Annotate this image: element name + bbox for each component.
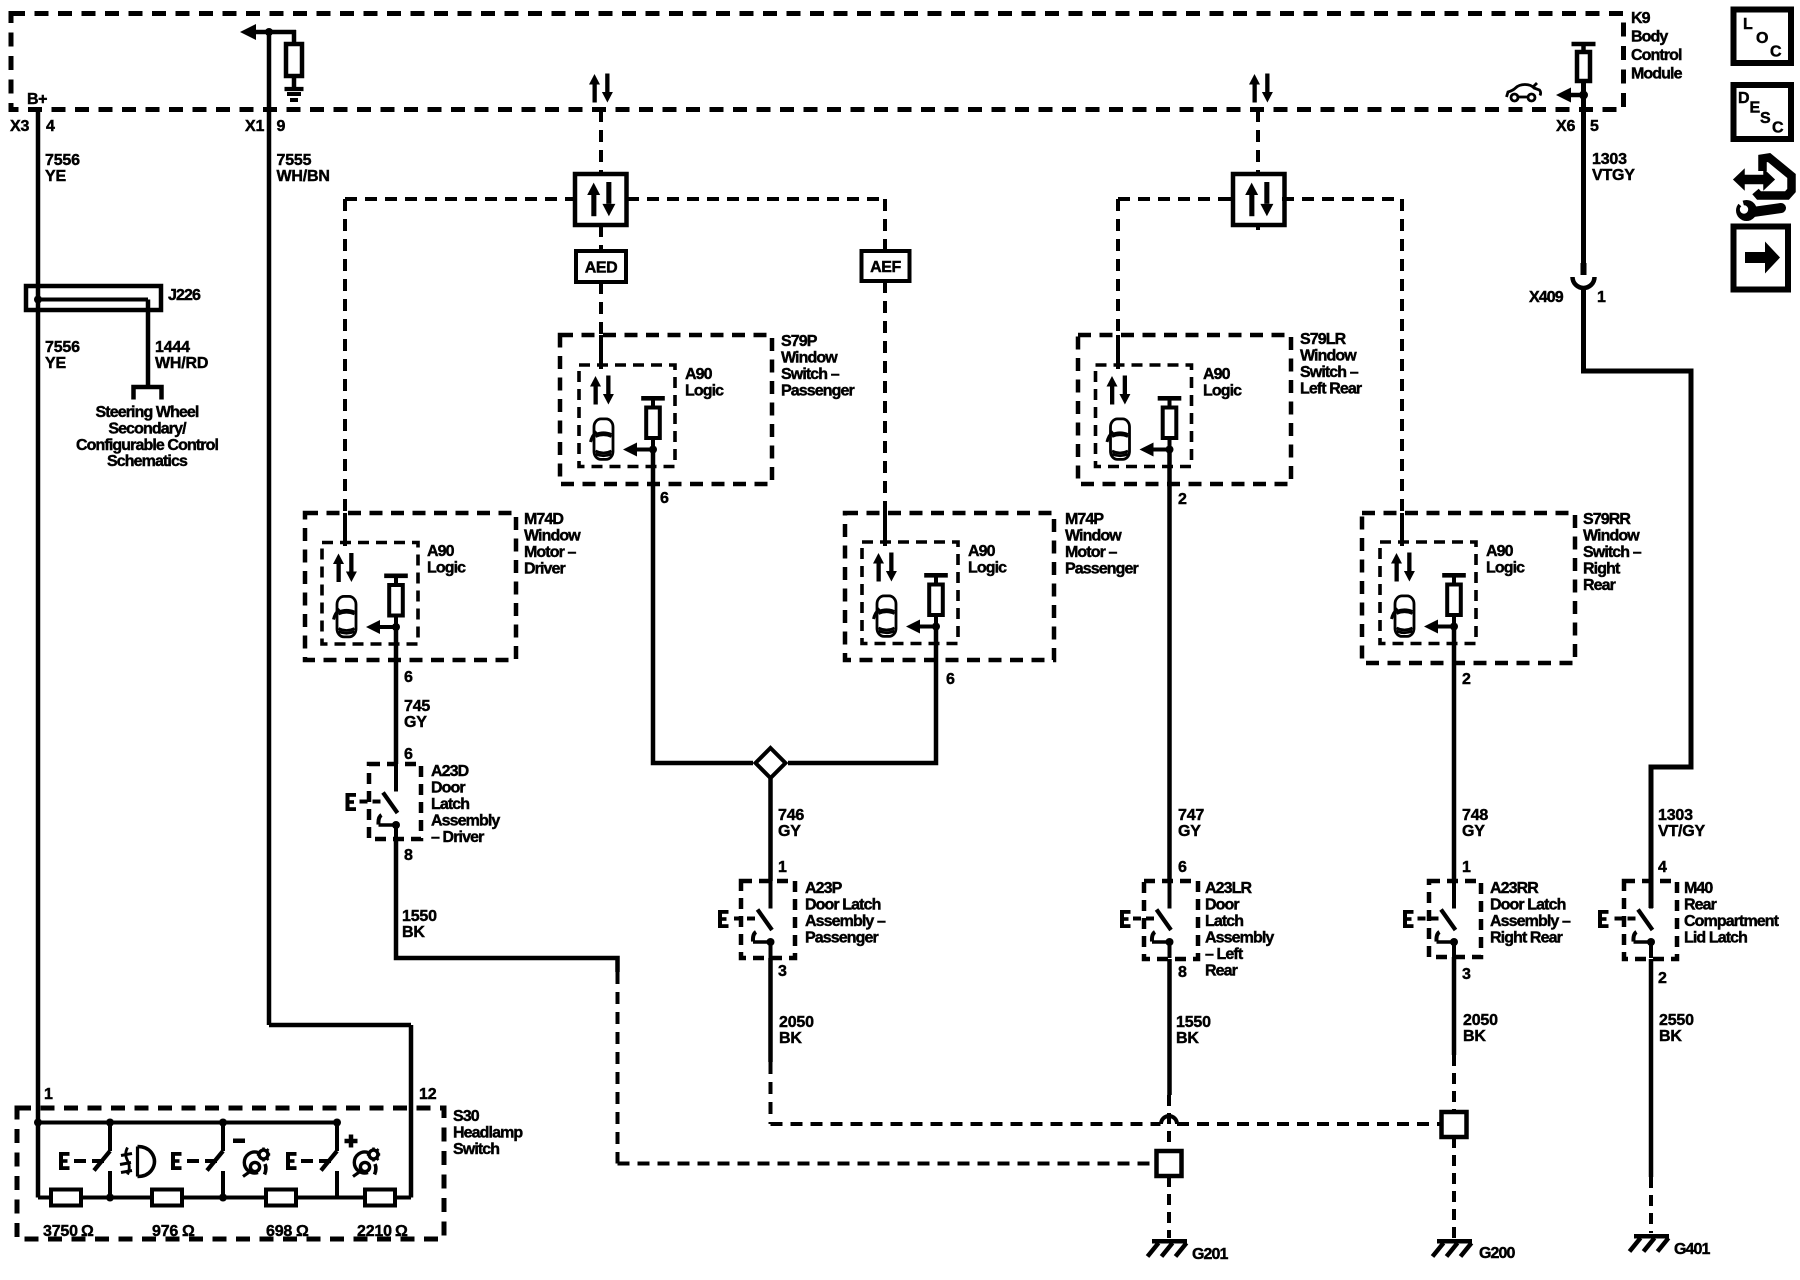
svg-text:6: 6 (946, 671, 955, 688)
svg-text:8: 8 (1178, 964, 1187, 981)
svg-text:Body: Body (1631, 29, 1668, 46)
svg-text:5: 5 (1590, 118, 1599, 135)
svg-text:– Driver: – Driver (431, 829, 484, 846)
svg-text:O: O (1756, 30, 1768, 47)
svg-text:X409: X409 (1529, 289, 1564, 306)
svg-text:AEF: AEF (870, 259, 901, 276)
svg-text:Assembly –: Assembly – (805, 913, 886, 930)
svg-text:1303: 1303 (1658, 807, 1693, 824)
svg-text:Driver: Driver (524, 561, 566, 578)
svg-text:8: 8 (404, 847, 413, 864)
svg-text:G401: G401 (1674, 1241, 1711, 1258)
svg-text:Window: Window (1583, 528, 1640, 545)
svg-text:GY: GY (1178, 823, 1201, 840)
svg-text:7556: 7556 (45, 152, 80, 169)
svg-text:Control: Control (1631, 47, 1682, 64)
svg-text:Latch: Latch (431, 796, 469, 813)
svg-text:GY: GY (1462, 823, 1485, 840)
svg-text:Logic: Logic (968, 560, 1007, 577)
svg-text:Ω: Ω (182, 1223, 195, 1240)
svg-text:VT/GY: VT/GY (1658, 823, 1706, 840)
svg-text:Module: Module (1631, 66, 1683, 83)
svg-text:A90: A90 (1486, 543, 1514, 560)
svg-text:S79P: S79P (781, 333, 818, 350)
svg-text:Configurable Control: Configurable Control (76, 437, 218, 454)
svg-text:Headlamp: Headlamp (453, 1125, 523, 1142)
svg-text:Switch –: Switch – (781, 366, 840, 383)
svg-text:Left Rear: Left Rear (1300, 381, 1362, 398)
svg-text:Switch –: Switch – (1300, 364, 1359, 381)
svg-text:C: C (1770, 44, 1782, 61)
svg-text:1550: 1550 (402, 908, 437, 925)
svg-text:Compartment: Compartment (1684, 913, 1780, 930)
svg-text:2: 2 (1178, 491, 1187, 508)
svg-text:1444: 1444 (155, 339, 190, 356)
svg-text:Rear: Rear (1684, 897, 1717, 914)
svg-text:7556: 7556 (45, 339, 80, 356)
svg-text:A90: A90 (968, 543, 996, 560)
svg-text:Door Latch: Door Latch (805, 897, 881, 914)
svg-text:Secondary/: Secondary/ (108, 421, 187, 438)
svg-text:L: L (1743, 16, 1753, 33)
svg-text:X1: X1 (245, 118, 264, 135)
svg-text:7555: 7555 (277, 152, 312, 169)
svg-text:WH/BN: WH/BN (277, 168, 330, 185)
svg-text:Ω: Ω (81, 1223, 94, 1240)
svg-text:6: 6 (660, 490, 669, 507)
svg-text:A23LR: A23LR (1205, 880, 1253, 897)
svg-text:Ω: Ω (296, 1223, 309, 1240)
svg-text:Switch: Switch (453, 1141, 499, 1158)
svg-text:S79LR: S79LR (1300, 331, 1347, 348)
svg-text:Window: Window (781, 350, 838, 367)
svg-text:12: 12 (419, 1086, 437, 1103)
svg-text:1550: 1550 (1176, 1014, 1211, 1031)
svg-text:4: 4 (1658, 859, 1667, 876)
svg-text:Logic: Logic (427, 560, 466, 577)
svg-text:BK: BK (1659, 1028, 1682, 1045)
svg-text:9: 9 (277, 118, 286, 135)
svg-text:Logic: Logic (685, 383, 724, 400)
svg-text:D: D (1738, 90, 1750, 107)
svg-text:3750: 3750 (43, 1223, 78, 1240)
svg-text:X3: X3 (10, 118, 29, 135)
svg-text:1303: 1303 (1592, 151, 1627, 168)
svg-text:Right: Right (1583, 561, 1621, 578)
svg-text:Rear: Rear (1205, 963, 1238, 980)
svg-text:S79RR: S79RR (1583, 511, 1631, 528)
svg-text:748: 748 (1462, 807, 1488, 824)
svg-text:1: 1 (44, 1086, 53, 1103)
svg-text:747: 747 (1178, 807, 1204, 824)
svg-text:1: 1 (1462, 859, 1471, 876)
svg-text:Assembly: Assembly (1205, 930, 1274, 947)
svg-text:Logic: Logic (1486, 560, 1525, 577)
svg-text:M74D: M74D (524, 511, 563, 528)
svg-text:M40: M40 (1684, 880, 1713, 897)
svg-text:S: S (1760, 110, 1771, 127)
svg-text:Passenger: Passenger (805, 930, 879, 947)
svg-text:1: 1 (1597, 289, 1606, 306)
svg-text:GY: GY (404, 714, 427, 731)
svg-text:YE: YE (45, 168, 66, 185)
svg-text:A90: A90 (685, 366, 713, 383)
svg-text:G200: G200 (1479, 1245, 1516, 1262)
svg-text:K9: K9 (1631, 10, 1651, 27)
svg-text:6: 6 (404, 746, 413, 763)
svg-text:Motor –: Motor – (1065, 544, 1117, 561)
svg-text:A90: A90 (1203, 366, 1231, 383)
svg-text:745: 745 (404, 698, 430, 715)
svg-text:J226: J226 (168, 287, 201, 304)
svg-text:Window: Window (524, 528, 581, 545)
svg-text:A23RR: A23RR (1490, 880, 1539, 897)
svg-text:Switch –: Switch – (1583, 544, 1642, 561)
svg-text:BK: BK (1176, 1030, 1199, 1047)
svg-text:X6: X6 (1556, 118, 1575, 135)
svg-text:6: 6 (1178, 859, 1187, 876)
svg-text:Passenger: Passenger (781, 383, 855, 400)
svg-text:Right Rear: Right Rear (1490, 930, 1563, 947)
svg-text:A23P: A23P (805, 880, 843, 897)
svg-text:Motor –: Motor – (524, 544, 576, 561)
svg-text:Passenger: Passenger (1065, 561, 1139, 578)
svg-text:C: C (1772, 120, 1784, 137)
svg-text:3: 3 (778, 963, 787, 980)
svg-text:976: 976 (152, 1223, 178, 1240)
svg-text:E: E (1750, 100, 1761, 117)
svg-text:746: 746 (778, 807, 804, 824)
svg-text:698: 698 (266, 1223, 292, 1240)
svg-text:Door Latch: Door Latch (1490, 897, 1566, 914)
svg-text:Schematics: Schematics (107, 453, 188, 470)
svg-text:G201: G201 (1192, 1246, 1229, 1263)
svg-text:BK: BK (779, 1030, 802, 1047)
svg-text:1: 1 (778, 859, 787, 876)
svg-text:Door: Door (1205, 897, 1239, 914)
svg-text:Assembly: Assembly (431, 813, 500, 830)
svg-text:GY: GY (778, 823, 801, 840)
svg-text:4: 4 (46, 118, 55, 135)
svg-text:Logic: Logic (1203, 383, 1242, 400)
svg-text:B+: B+ (27, 91, 47, 108)
svg-text:A90: A90 (427, 543, 455, 560)
svg-text:Assembly –: Assembly – (1490, 913, 1571, 930)
svg-text:2: 2 (1462, 671, 1471, 688)
svg-text:Window: Window (1065, 528, 1122, 545)
svg-text:2: 2 (1658, 970, 1667, 987)
svg-text:A23D: A23D (431, 763, 469, 780)
svg-text:VTGY: VTGY (1592, 167, 1635, 184)
svg-text:2050: 2050 (1463, 1012, 1498, 1029)
svg-text:2550: 2550 (1659, 1012, 1694, 1029)
svg-text:Latch: Latch (1205, 913, 1243, 930)
svg-text:2050: 2050 (779, 1014, 814, 1031)
svg-text:6: 6 (404, 669, 413, 686)
svg-text:Steering Wheel: Steering Wheel (96, 404, 199, 421)
svg-text:Window: Window (1300, 348, 1357, 365)
svg-text:BK: BK (1463, 1028, 1486, 1045)
svg-text:YE: YE (45, 355, 66, 372)
svg-text:Door: Door (431, 780, 465, 797)
svg-text:Lid Latch: Lid Latch (1684, 930, 1747, 947)
svg-text:S30: S30 (453, 1108, 480, 1125)
svg-text:2210: 2210 (357, 1223, 392, 1240)
svg-text:– Left: – Left (1205, 946, 1244, 963)
svg-text:AED: AED (585, 260, 618, 277)
svg-text:Ω: Ω (395, 1223, 408, 1240)
svg-text:BK: BK (402, 924, 425, 941)
svg-text:3: 3 (1462, 966, 1471, 983)
svg-text:M74P: M74P (1065, 511, 1104, 528)
svg-text:WH/RD: WH/RD (155, 355, 208, 372)
svg-text:Rear: Rear (1583, 577, 1616, 594)
